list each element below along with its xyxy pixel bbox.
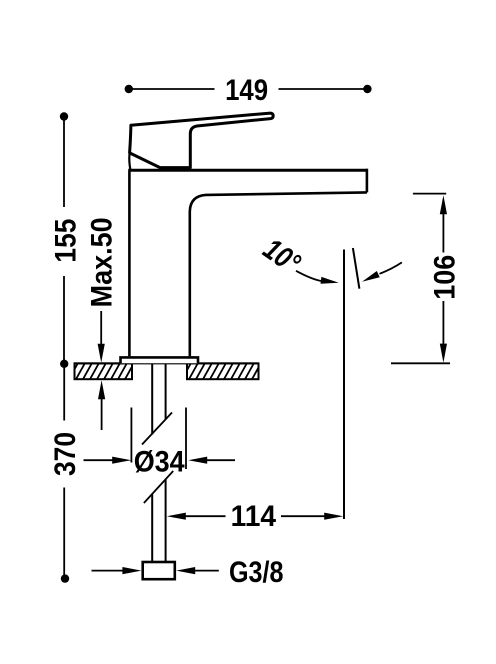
dimension 106 extension lines (391, 194, 450, 364)
hose break slash upper (142, 413, 172, 445)
dimension 114 line (185, 515, 326, 517)
dimension 370 end dot (61, 574, 69, 582)
svg-text:370: 370 (49, 432, 82, 476)
faucet spout right edge (366, 169, 369, 193)
dimension 106 arrows (440, 195, 447, 214)
svg-text:114: 114 (231, 500, 277, 533)
faucet column left edge (128, 172, 131, 357)
svg-text:106: 106 (429, 255, 462, 300)
svg-text:G3/8: G3/8 (229, 556, 284, 589)
supply hose lower segment (152, 480, 165, 563)
dimension 149 end dots (125, 85, 133, 93)
water stream line (343, 250, 345, 520)
tilted 10 degree line (353, 248, 360, 289)
deck left hatch block (68, 363, 148, 381)
dimension O34 extension lines (131, 408, 186, 470)
dimension 155 line (63, 117, 65, 364)
dimension 155 end dots (60, 112, 68, 120)
supply hose upper segment (152, 364, 165, 435)
G3/8 connector (143, 562, 175, 579)
svg-text:149: 149 (225, 74, 268, 107)
faucet spout bottom edge and inner curve (190, 192, 367, 356)
dimension 114 arrows (167, 513, 186, 520)
hose break slash lower (144, 471, 173, 503)
faucet base flange (121, 357, 199, 363)
handle front lip line (129, 154, 130, 170)
dimension Max.50 down arrow (100, 311, 102, 345)
dimension 106 line (442, 213, 444, 345)
svg-text:Max.50: Max.50 (86, 217, 119, 307)
faucet body top line (128, 169, 368, 172)
svg-text:Ø34: Ø34 (134, 445, 185, 478)
dimension Max.50 up arrow (101, 398, 103, 430)
deck right hatch block (181, 363, 268, 381)
curved arrow to tilted line (380, 262, 402, 273)
faucet handle (130, 113, 274, 168)
deck top surface line (75, 362, 259, 364)
dimension 149 line (129, 88, 368, 90)
dimension O34 left arrow (84, 459, 114, 461)
svg-text:155: 155 (50, 219, 83, 263)
curved arrow to stream line (296, 271, 322, 281)
dimension 370 line (63, 364, 65, 577)
dimension O34 right arrow (207, 459, 236, 461)
dimension G3/8 line (92, 570, 219, 572)
dimension G3/8 arrows (122, 567, 141, 574)
